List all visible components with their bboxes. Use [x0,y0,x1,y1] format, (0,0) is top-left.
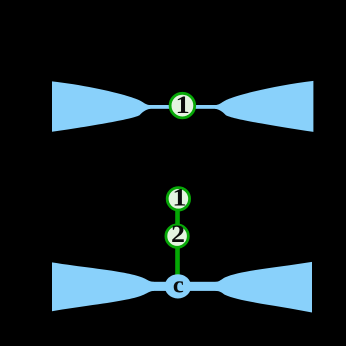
node circle 1 (top figure) [170,93,195,118]
svg-text:1: 1 [175,90,189,118]
svg-text:c: c [173,272,184,299]
node circle 1 (bottom figure) [167,188,189,210]
bottom surface: thick neck wire [146,282,219,291]
top surface: right lobe (horn) [215,81,314,132]
bottom surface: left lobe (horn) [52,262,154,311]
green chain edge (1-2-c) [175,198,180,286]
svg-text:2: 2 [171,219,185,247]
node circle 2 (bottom figure) [166,225,188,247]
bottom surface: right lobe (horn) [216,262,313,313]
node circle c (blue, at neck) [165,274,191,298]
top surface: left lobe (horn) [52,81,151,131]
svg-text:1: 1 [172,183,186,211]
top surface: thin neck wire [146,105,219,109]
